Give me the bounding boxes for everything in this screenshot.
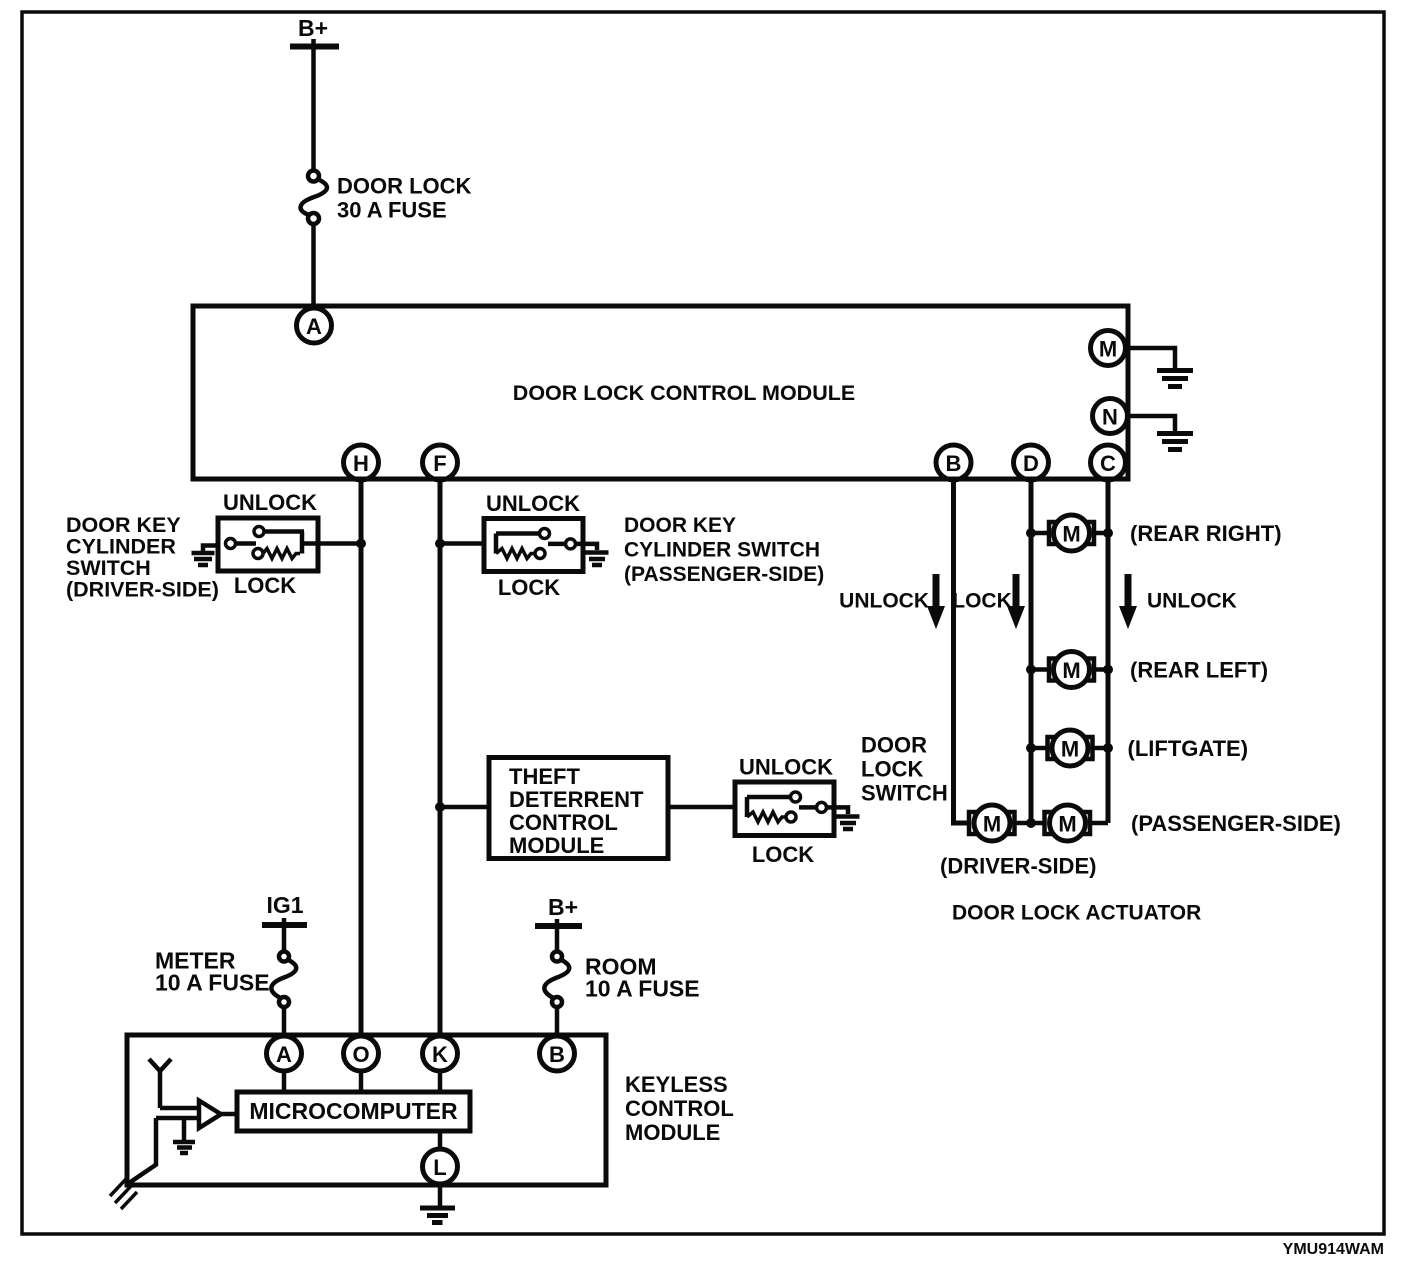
svg-text:SWITCH: SWITCH [66, 556, 151, 580]
svg-text:DOOR KEY: DOOR KEY [66, 513, 181, 537]
svg-text:A: A [276, 1042, 292, 1067]
svg-text:A: A [306, 314, 322, 339]
wire H to keyless O [359, 480, 364, 1036]
svg-text:(REAR LEFT): (REAR LEFT) [1130, 658, 1268, 683]
svg-text:10 A FUSE: 10 A FUSE [585, 976, 700, 1002]
svg-text:K: K [432, 1042, 448, 1067]
label door lock switch [861, 733, 948, 806]
wire pin K to microcomputer [438, 1071, 443, 1093]
pin A of keyless control module [267, 1036, 302, 1071]
svg-text:M: M [983, 812, 1001, 837]
box THEFT DETERRENT CONTROL MODULE [489, 758, 668, 859]
svg-text:YMU914WAM: YMU914WAM [1283, 1241, 1384, 1258]
svg-text:MICROCOMPUTER: MICROCOMPUTER [249, 1098, 458, 1124]
motor M driver-side actuator [969, 805, 1045, 841]
svg-text:D: D [1023, 451, 1039, 476]
fuse METER 10 A FUSE [155, 948, 296, 1008]
wire fuse to module terminal A [311, 224, 316, 307]
chassis ground hatching at keyless box corner [110, 1177, 137, 1209]
amplifier triangle [199, 1101, 221, 1129]
svg-text:LOCK: LOCK [234, 573, 296, 598]
motor M liftgate actuator [1026, 730, 1113, 766]
svg-text:B: B [549, 1042, 565, 1067]
svg-text:(DRIVER-SIDE): (DRIVER-SIDE) [940, 854, 1096, 879]
wire pin A to microcomputer [282, 1071, 287, 1093]
pin H of door lock control module [344, 445, 379, 480]
wire F to passenger key switch [440, 541, 484, 546]
ground at pin M [1128, 348, 1193, 387]
fuse ROOM 10 A FUSE [544, 952, 699, 1008]
svg-text:B: B [946, 451, 962, 476]
svg-text:B+: B+ [298, 15, 328, 41]
ground at door lock switch [834, 807, 860, 829]
wire meter fuse to keyless A [282, 1007, 287, 1037]
svg-text:N: N [1102, 405, 1118, 430]
label UNLOCK with arrow (C wire) [1119, 574, 1237, 629]
svg-text:DOOR LOCK: DOOR LOCK [337, 174, 472, 199]
antenna [149, 1059, 199, 1108]
node junction F / passenger key switch [435, 539, 445, 549]
label keyless control module [625, 1072, 734, 1145]
svg-text:IG1: IG1 [266, 892, 303, 918]
svg-text:UNLOCK: UNLOCK [223, 490, 317, 515]
svg-text:UNLOCK: UNLOCK [1147, 590, 1237, 613]
svg-text:F: F [433, 451, 446, 476]
svg-text:10 A FUSE: 10 A FUSE [155, 970, 270, 996]
pin A of door lock control module [297, 308, 332, 343]
label LOCK with arrow (D wire) [952, 574, 1025, 629]
svg-text:LOCK: LOCK [861, 757, 923, 782]
ground at pin L [420, 1184, 455, 1223]
svg-text:(DRIVER-SIDE): (DRIVER-SIDE) [66, 578, 219, 602]
label UNLOCK with arrow (B wire) [839, 574, 945, 629]
pin K of keyless control module [423, 1036, 458, 1071]
svg-text:L: L [433, 1155, 446, 1180]
ground at pin N [1128, 416, 1193, 450]
pin F of door lock control module [423, 445, 458, 480]
svg-text:M: M [1062, 658, 1080, 683]
ground at driver key cylinder switch [192, 546, 219, 566]
pin O of keyless control module [344, 1036, 379, 1071]
wire room fuse to keyless B [555, 1007, 560, 1037]
svg-text:MODULE: MODULE [509, 833, 604, 858]
svg-text:M: M [1061, 737, 1079, 762]
label door key cylinder switch driver-side [66, 513, 219, 602]
node B+ (room fuse feed) [535, 894, 582, 952]
svg-text:H: H [353, 451, 369, 476]
node junction H / driver key switch [356, 539, 366, 549]
svg-text:SWITCH: SWITCH [861, 781, 948, 806]
fuse DOOR LOCK 30 A FUSE [301, 171, 472, 225]
box MICROCOMPUTER [237, 1092, 470, 1131]
svg-text:LOCK: LOCK [498, 575, 560, 600]
svg-text:CONTROL: CONTROL [509, 810, 618, 835]
svg-text:CONTROL: CONTROL [625, 1096, 734, 1121]
motor M passenger-side actuator [1026, 805, 1108, 841]
svg-text:(LIFTGATE): (LIFTGATE) [1128, 736, 1249, 761]
svg-text:UNLOCK: UNLOCK [486, 491, 580, 516]
node B+ (top battery feed) [290, 15, 339, 170]
svg-text:CYLINDER: CYLINDER [66, 535, 176, 559]
svg-text:O: O [352, 1042, 369, 1067]
switch door key cylinder (passenger-side) [484, 491, 583, 600]
svg-text:C: C [1100, 451, 1116, 476]
svg-text:M: M [1062, 522, 1080, 547]
svg-text:DOOR LOCK ACTUATOR: DOOR LOCK ACTUATOR [952, 902, 1201, 925]
svg-text:DOOR LOCK CONTROL MODULE: DOOR LOCK CONTROL MODULE [513, 381, 855, 405]
wire amplifier reference input [129, 1118, 199, 1183]
svg-text:UNLOCK: UNLOCK [739, 755, 833, 780]
svg-text:THEFT: THEFT [509, 764, 580, 789]
box DOOR LOCK CONTROL MODULE U1 [193, 306, 1128, 479]
svg-text:(PASSENGER-SIDE): (PASSENGER-SIDE) [624, 563, 824, 586]
wire amplifier to microcomputer [221, 1112, 237, 1117]
ground at amplifier input [173, 1118, 195, 1153]
svg-text:DOOR: DOOR [861, 733, 927, 758]
wire pin C down to actuator bus [1106, 480, 1111, 823]
pin B of keyless control module [540, 1036, 575, 1071]
box KEYLESS CONTROL MODULE [127, 1035, 606, 1185]
svg-text:UNLOCK: UNLOCK [839, 590, 929, 613]
wire pin B down to driver-side actuator [954, 480, 970, 823]
pin L of keyless control module [423, 1149, 458, 1184]
node IG1 [262, 892, 307, 952]
wire F to theft deterrent control module [440, 805, 489, 810]
svg-text:(PASSENGER-SIDE): (PASSENGER-SIDE) [1131, 811, 1341, 836]
wire F to keyless K [438, 480, 443, 1036]
svg-text:KEYLESS: KEYLESS [625, 1072, 728, 1097]
pin D of door lock control module [1014, 445, 1049, 480]
svg-text:LOCK: LOCK [752, 842, 814, 867]
svg-text:M: M [1058, 812, 1076, 837]
pin C of door lock control module [1091, 445, 1126, 480]
svg-text:CYLINDER SWITCH: CYLINDER SWITCH [624, 539, 820, 562]
svg-text:DETERRENT: DETERRENT [509, 787, 644, 812]
svg-text:LOCK: LOCK [952, 590, 1012, 613]
node junction F / theft deterrent module [435, 802, 445, 812]
svg-text:B+: B+ [548, 894, 578, 920]
svg-text:30 A FUSE: 30 A FUSE [337, 198, 447, 223]
wire pin O to microcomputer [359, 1071, 364, 1093]
ground at passenger key cylinder switch [583, 544, 609, 565]
svg-text:MODULE: MODULE [625, 1120, 720, 1145]
wire microcomputer to pin L [438, 1131, 443, 1150]
pin M of door lock control module [1091, 331, 1126, 366]
svg-text:DOOR KEY: DOOR KEY [624, 514, 736, 537]
wire theft module to door lock switch [668, 805, 735, 810]
svg-text:(REAR RIGHT): (REAR RIGHT) [1130, 521, 1282, 546]
wire pin D down to actuator bus [1029, 480, 1034, 823]
switch door lock switch [735, 755, 834, 868]
switch door key cylinder (driver-side) [218, 490, 361, 598]
pin B of door lock control module [936, 445, 971, 480]
svg-text:M: M [1099, 337, 1117, 362]
motor M rear left actuator [1026, 652, 1113, 688]
motor M rear right actuator [1026, 515, 1113, 551]
pin N of door lock control module [1093, 399, 1128, 434]
label door key cylinder switch passenger-side [624, 514, 824, 586]
